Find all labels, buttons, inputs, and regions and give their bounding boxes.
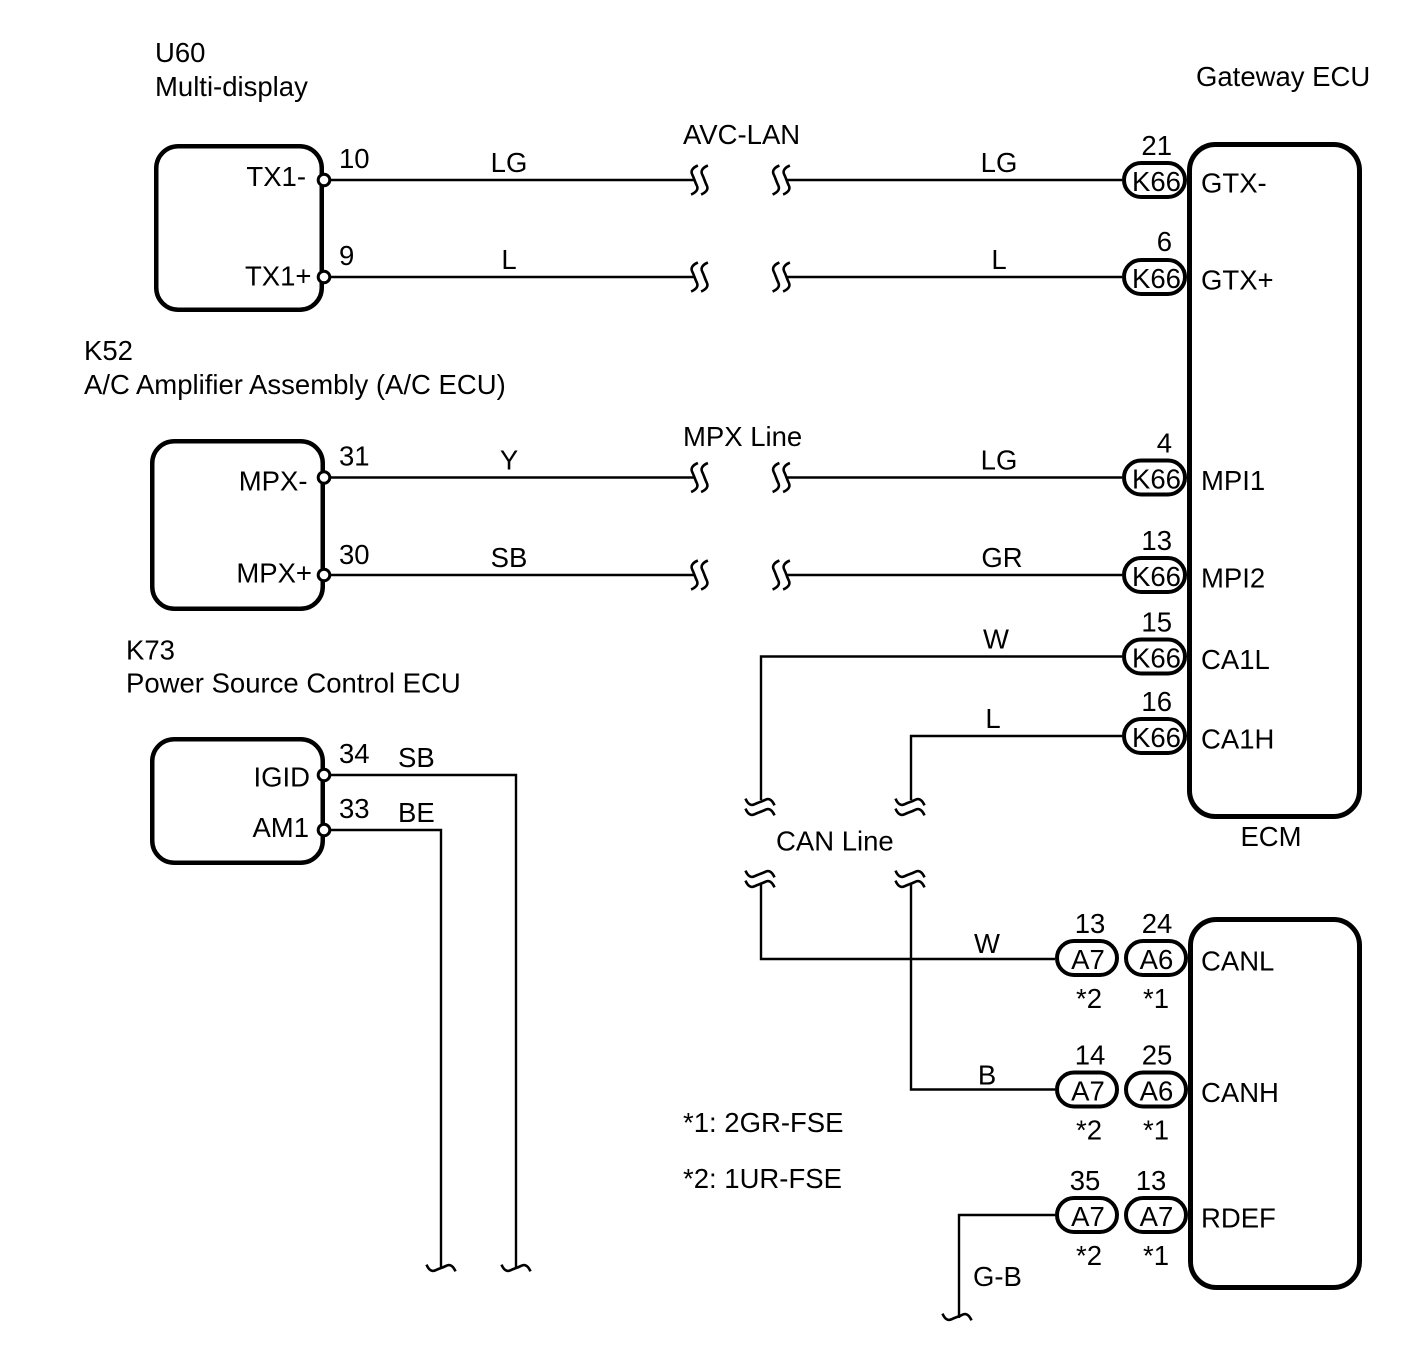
wire break squiggle pair left row 4 (691, 561, 698, 590)
svg-text:L: L (501, 244, 516, 275)
connector K66 pin 16 (1124, 719, 1185, 753)
svg-text:CANL: CANL (1201, 946, 1274, 977)
wire end wavy SB (502, 1265, 531, 1272)
wire TX1+ to break, L (331, 276, 694, 278)
svg-text:LG: LG (981, 445, 1018, 476)
svg-text:K66: K66 (1132, 263, 1181, 294)
svg-text:4: 4 (1157, 428, 1172, 459)
wire break squiggle pair left row 3 (691, 463, 698, 492)
svg-text:L: L (985, 703, 1000, 734)
svg-text:A6: A6 (1140, 944, 1174, 975)
svg-text:SB: SB (491, 542, 528, 573)
svg-text:30: 30 (339, 539, 370, 570)
wire CA1H, L (911, 736, 1122, 800)
svg-text:GR: GR (981, 542, 1022, 573)
svg-text:15: 15 (1141, 607, 1172, 638)
svg-text:MPI2: MPI2 (1201, 563, 1265, 594)
svg-text:AVC-LAN: AVC-LAN (683, 119, 800, 150)
wire end wavy G-B (943, 1314, 972, 1321)
svg-text:13: 13 (1136, 1165, 1167, 1196)
svg-text:10: 10 (339, 143, 370, 174)
svg-text:*1: *1 (1143, 983, 1169, 1014)
pin circle IGID (318, 769, 330, 781)
wire CANH, B (911, 884, 1055, 1090)
wire break wavy pair CA1L vertical (746, 799, 775, 806)
pin circle MPX- (318, 472, 330, 484)
wire IGID, SB (331, 775, 516, 1268)
svg-text:IGID: IGID (253, 761, 310, 792)
pin circle TX1- (318, 174, 330, 186)
svg-text:35: 35 (1070, 1165, 1101, 1196)
svg-text:TX1-: TX1- (246, 161, 306, 192)
wire CA1L, W (761, 657, 1122, 801)
wire break to K66 MPI1, LG (787, 476, 1122, 478)
block K52 A/C Amplifier Assembly (152, 441, 323, 609)
svg-text:16: 16 (1141, 686, 1172, 717)
svg-text:CA1L: CA1L (1201, 644, 1270, 675)
svg-text:K66: K66 (1132, 643, 1181, 674)
svg-text:13: 13 (1141, 525, 1172, 556)
svg-text:A6: A6 (1140, 1076, 1174, 1107)
svg-text:Multi-display: Multi-display (155, 71, 308, 102)
wire break squiggle pair right row 4 (773, 561, 780, 590)
svg-text:U60: U60 (155, 37, 205, 68)
svg-text:A7: A7 (1071, 1201, 1105, 1232)
connector K66 pin 15 (1124, 640, 1185, 674)
svg-text:CA1H: CA1H (1201, 724, 1274, 755)
svg-text:A7: A7 (1071, 1076, 1105, 1107)
wire MPX- to break, Y (331, 476, 694, 478)
wire AM1, BE (331, 830, 441, 1268)
svg-text:K66: K66 (1132, 166, 1181, 197)
svg-text:RDEF: RDEF (1201, 1203, 1276, 1234)
svg-text:CAN Line: CAN Line (776, 826, 894, 857)
svg-text:*1: 2GR-FSE: *1: 2GR-FSE (683, 1107, 843, 1138)
svg-text:MPX+: MPX+ (236, 558, 312, 589)
svg-text:Y: Y (500, 445, 518, 476)
connector A6 pin 25 CANH (1126, 1073, 1186, 1107)
wire TX1- to break, LG (331, 179, 694, 181)
svg-text:13: 13 (1075, 908, 1106, 939)
svg-text:A7: A7 (1071, 944, 1105, 975)
svg-text:BE: BE (398, 797, 435, 828)
block K73 Power Source Control ECU (152, 739, 323, 863)
wire break wavy pair CANH vertical (896, 871, 925, 878)
wire break squiggle pair left row 2 (691, 263, 698, 292)
svg-text:*2: *2 (1076, 983, 1102, 1014)
svg-text:*2: 1UR-FSE: *2: 1UR-FSE (683, 1163, 842, 1194)
connector A7 pin 14 CANH (1057, 1073, 1117, 1107)
svg-text:14: 14 (1075, 1040, 1106, 1071)
svg-text:AM1: AM1 (252, 812, 309, 843)
wire end wavy BE (427, 1265, 456, 1272)
wire break wavy pair CANL vertical (746, 871, 775, 878)
svg-text:21: 21 (1141, 130, 1172, 161)
wire break to K66 GTX-, LG (787, 179, 1122, 181)
svg-text:W: W (974, 928, 1000, 959)
svg-text:LG: LG (491, 147, 528, 178)
connector K66 pin 4 (1124, 461, 1185, 495)
svg-text:LG: LG (981, 147, 1018, 178)
connector A7 pin 13 CANL (1057, 941, 1117, 975)
svg-text:W: W (983, 624, 1009, 655)
wire break squiggle pair right row 3 (773, 463, 780, 492)
svg-text:GTX-: GTX- (1201, 168, 1267, 199)
connector A7 pin 35 RDEF (1057, 1198, 1117, 1232)
svg-text:SB: SB (398, 742, 435, 773)
svg-text:B: B (978, 1060, 996, 1091)
connector K66 pin 21 (1124, 163, 1185, 197)
pin circle TX1+ (318, 271, 330, 283)
block ECM (1191, 920, 1360, 1288)
svg-text:34: 34 (339, 738, 370, 769)
svg-text:33: 33 (339, 793, 370, 824)
wire break squiggle pair left row 1 (691, 166, 698, 195)
svg-text:G-B: G-B (973, 1261, 1022, 1292)
svg-text:L: L (991, 244, 1006, 275)
svg-text:CANH: CANH (1201, 1077, 1279, 1108)
connector K66 pin 13 (1124, 558, 1185, 592)
svg-text:A7: A7 (1140, 1201, 1174, 1232)
svg-text:K66: K66 (1132, 464, 1181, 495)
svg-text:31: 31 (339, 441, 370, 472)
svg-text:ECM: ECM (1240, 821, 1301, 852)
wire break to K66 GTX+, L (787, 276, 1122, 278)
block U60 Multi-display (156, 146, 322, 310)
connector A7 pin 13 RDEF (1126, 1198, 1186, 1232)
pin circle AM1 (318, 824, 330, 836)
svg-text:TX1+: TX1+ (245, 261, 312, 292)
connector K66 pin 6 (1124, 260, 1185, 294)
svg-text:GTX+: GTX+ (1201, 265, 1274, 296)
svg-text:K52: K52 (84, 335, 133, 366)
svg-text:K66: K66 (1132, 561, 1181, 592)
wire RDEF, G-B (959, 1215, 1055, 1318)
svg-text:K66: K66 (1132, 722, 1181, 753)
svg-text:MPX-: MPX- (239, 465, 308, 496)
svg-text:9: 9 (339, 240, 354, 271)
svg-text:*1: *1 (1143, 1240, 1169, 1271)
svg-text:K73: K73 (126, 635, 175, 666)
wire break to K66 MPI2, GR (787, 574, 1122, 576)
svg-text:MPX Line: MPX Line (683, 421, 802, 452)
svg-text:*1: *1 (1143, 1115, 1169, 1146)
svg-text:MPI1: MPI1 (1201, 465, 1265, 496)
svg-text:24: 24 (1142, 908, 1173, 939)
wire break squiggle pair right row 2 (773, 263, 780, 292)
wire break wavy pair CA1H vertical (896, 799, 925, 806)
svg-text:A/C Amplifier Assembly (A/C EC: A/C Amplifier Assembly (A/C ECU) (84, 369, 506, 400)
wire CANL, W (761, 884, 1055, 959)
svg-text:6: 6 (1157, 226, 1172, 257)
svg-text:*2: *2 (1076, 1240, 1102, 1271)
wire break squiggle pair right row 1 (773, 166, 780, 195)
pin circle MPX+ (318, 569, 330, 581)
svg-text:*2: *2 (1076, 1115, 1102, 1146)
svg-text:25: 25 (1142, 1040, 1173, 1071)
wire MPX+ to break, SB (331, 574, 694, 576)
block Gateway ECU (1190, 145, 1360, 817)
svg-text:Power Source Control ECU: Power Source Control ECU (126, 668, 461, 699)
connector A6 pin 24 CANL (1126, 941, 1186, 975)
svg-text:Gateway ECU: Gateway ECU (1196, 61, 1370, 92)
